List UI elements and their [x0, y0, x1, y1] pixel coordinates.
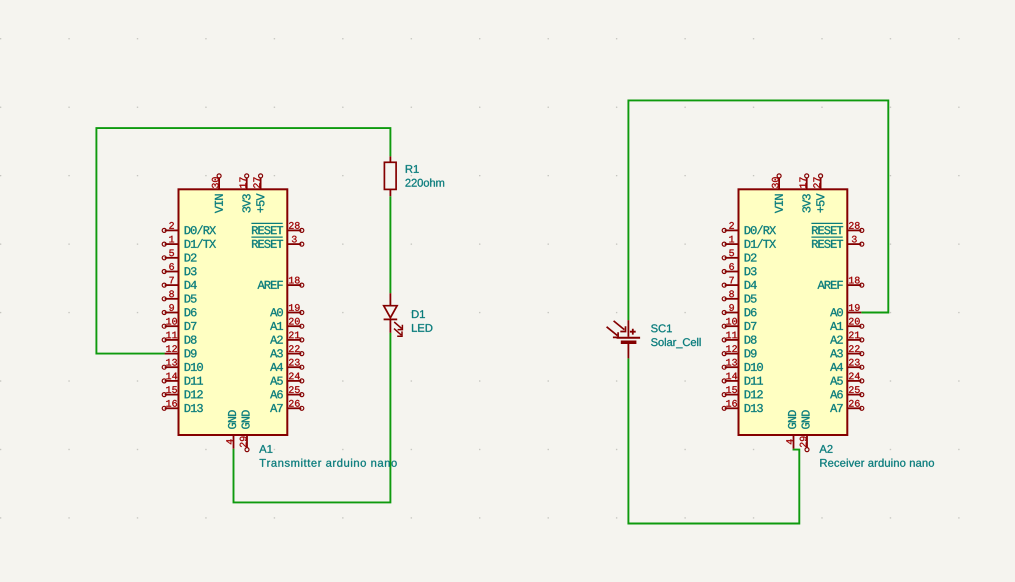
A2 pin 23 (A4) [830, 359, 864, 371]
R1 reference label [406, 165, 419, 173]
A2 pin 15 (D12) [722, 386, 763, 398]
A2 pin 21 (A2) [830, 332, 864, 344]
A1 pin 12 (D9) [165, 345, 197, 357]
A1 pin 16 (D13) [162, 400, 203, 412]
A2 pin 17 (3V3) [800, 174, 811, 213]
A2 pin 1 (D1/TX) [722, 236, 776, 248]
solar cell SC1 [607, 320, 641, 358]
A1 pin 28 (RESET) [251, 222, 303, 234]
A2 pin 5 (D2) [722, 250, 756, 262]
wire D9 to R1 top [96, 128, 390, 354]
A2 pin 30 (VIN) [772, 174, 783, 213]
R1 value 220ohm [406, 179, 445, 187]
wire R1 bottom to LED D1 anode [389, 196, 391, 293]
A1 pin 27 (+5V) [253, 174, 264, 213]
A1 pin 3 (RESET) [251, 236, 303, 248]
A2 value Receiver arduino nano [820, 459, 934, 467]
A2 pin 6 (D3) [722, 263, 756, 275]
A1 pin 9 (D6) [162, 304, 196, 316]
A2 pin 13 (D10) [722, 359, 763, 371]
arduino nano A1 body [179, 189, 288, 435]
A1 pin 30 (VIN) [212, 174, 223, 213]
A1 pin 18 (AREF) [258, 277, 304, 289]
A2 pin 4 (GND) [786, 410, 796, 448]
wire solar cell SC1 minus to A2 GND pin 4 [628, 358, 799, 523]
A1 pin 25 (A6) [270, 386, 304, 398]
A1 pin 24 (A5) [270, 373, 304, 385]
A2 pin 27 (+5V) [813, 174, 824, 213]
A1 pin 6 (D3) [162, 263, 196, 275]
A2 pin 25 (A6) [830, 386, 864, 398]
A1 pin 5 (D2) [162, 250, 196, 262]
A2 pin 24 (A5) [830, 373, 864, 385]
A2 pin 8 (D5) [722, 290, 756, 302]
A1 pin 11 (D8) [162, 332, 196, 344]
A2 pin 19 (A0) [830, 304, 861, 316]
A1 pin 17 (3V3) [240, 174, 251, 213]
A2 pin 26 (A7) [830, 400, 864, 412]
A2 pin 3 (RESET) [811, 236, 863, 248]
A2 pin 7 (D4) [722, 277, 757, 289]
A1 pin 22 (A3) [270, 345, 304, 357]
A2 pin 9 (D6) [722, 304, 756, 316]
A1 pin 20 (A1) [270, 318, 304, 330]
A2 pin 10 (D7) [722, 318, 756, 330]
A2 pin 22 (A3) [830, 345, 864, 357]
A1 pin 14 (D11) [162, 373, 203, 385]
A2 pin 20 (A1) [830, 318, 864, 330]
A1 pin 4 (GND) [226, 410, 236, 448]
D1 value LED [412, 324, 432, 332]
A2 pin 29 (GND) [800, 410, 810, 451]
A1 value Transmitter arduino nano [260, 459, 397, 467]
A1 pin 13 (D10) [162, 359, 203, 371]
A2 pin 11 (D8) [722, 332, 756, 344]
A2 pin 14 (D11) [722, 373, 763, 385]
A1 pin 7 (D4) [162, 277, 197, 289]
wire A2 pin A0 to solar cell SC1 plus [628, 100, 888, 320]
wire LED D1 cathode to A1 GND pin 4 [234, 333, 391, 503]
A1 pin 23 (A4) [270, 359, 304, 371]
D1 reference label [412, 310, 425, 318]
arduino nano A2 body [739, 189, 848, 435]
A1 pin 21 (A2) [270, 332, 304, 344]
A1 pin 29 (GND) [240, 410, 250, 451]
A2 pin 16 (D13) [722, 400, 763, 412]
A1 pin 1 (D1/TX) [162, 236, 216, 248]
A1 pin 8 (D5) [162, 290, 196, 302]
A2 reference label [819, 445, 832, 453]
SC1 value Solar_Cell [651, 338, 701, 348]
A1 pin 10 (D7) [162, 318, 196, 330]
resistor R1 [384, 156, 396, 196]
A2 pin 28 (RESET) [811, 222, 863, 234]
A1 pin 2 (D0/RX) [162, 222, 216, 234]
A2 pin 18 (AREF) [818, 277, 864, 289]
A1 pin 15 (D12) [162, 386, 203, 398]
A1 reference label [259, 445, 272, 453]
SC1 reference label [651, 324, 672, 332]
A2 pin 2 (D0/RX) [722, 222, 776, 234]
A1 pin 19 (A0) [270, 304, 304, 316]
A2 pin 12 (D9) [722, 345, 756, 357]
LED D1 [384, 293, 403, 336]
A1 pin 26 (A7) [270, 400, 304, 412]
